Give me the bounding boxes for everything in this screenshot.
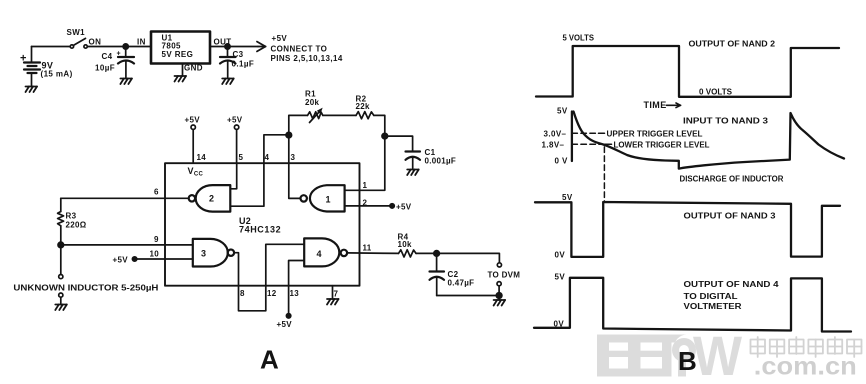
svg-text:0.001µF: 0.001µF — [425, 157, 457, 166]
svg-text:0.1µF: 0.1µF — [232, 60, 255, 69]
svg-text:+5V: +5V — [113, 256, 129, 265]
NAND gate U2-1 — [301, 185, 345, 211]
wire R2 to node B and down to pin1 — [345, 115, 385, 190]
+5V terminal pin13 — [286, 314, 290, 318]
svg-text:+5V: +5V — [277, 320, 293, 329]
wire 9 to gate3 — [61, 244, 193, 246]
dashed lower trigger level — [572, 143, 606, 145]
svg-text:VOLTMETER: VOLTMETER — [684, 302, 742, 311]
svg-text:C4: C4 — [102, 52, 113, 61]
svg-text:1: 1 — [326, 195, 331, 205]
wire pin4 to node A — [264, 135, 289, 163]
DVM terminals — [497, 263, 502, 296]
svg-text:0V: 0V — [555, 251, 566, 260]
NAND gate U2-4 — [304, 238, 347, 266]
node C3 junction — [225, 44, 230, 49]
battery B1 9V — [24, 47, 40, 87]
oscillator labels — [13, 90, 520, 375]
svg-text:(15 mA): (15 mA) — [41, 70, 73, 79]
svg-text:+5V: +5V — [185, 116, 201, 125]
ground inductor — [55, 305, 67, 311]
node B junction — [382, 133, 388, 139]
svg-text:9: 9 — [154, 235, 159, 244]
svg-text:2: 2 — [363, 199, 368, 208]
switch SW1 — [70, 38, 87, 48]
svg-text:10k: 10k — [398, 240, 412, 249]
ground DVM — [494, 296, 506, 306]
svg-text:0.47µF: 0.47µF — [448, 279, 475, 288]
+5V terminal pin10 — [132, 257, 136, 261]
EEPW logo badge — [597, 324, 742, 384]
svg-text:OUTPUT OF NAND 3: OUTPUT OF NAND 3 — [684, 212, 777, 221]
node A junction — [286, 132, 292, 138]
svg-text:4: 4 — [317, 249, 322, 259]
wire 6 gate2 output to R3 — [61, 197, 189, 199]
IC U2 74HC132 box — [165, 163, 360, 286]
svg-text:220Ω: 220Ω — [66, 221, 87, 230]
wire gate3 output to pin8 pin12 U-link — [234, 244, 304, 310]
svg-text:10µF: 10µF — [95, 64, 115, 73]
resistor R2 22k — [356, 112, 374, 119]
svg-text:C3: C3 — [233, 50, 244, 59]
wire node B to C1 — [385, 136, 413, 151]
svg-text:1.8V–: 1.8V– — [542, 141, 565, 150]
svg-text:0 VOLTS: 0 VOLTS — [699, 88, 733, 97]
svg-text:13: 13 — [290, 289, 300, 298]
svg-text:2: 2 — [209, 194, 214, 204]
svg-text:UNKNOWN INDUCTOR 5-250µH: UNKNOWN INDUCTOR 5-250µH — [13, 284, 158, 293]
EEPW chinese watermark — [751, 337, 862, 357]
svg-text:LOWER TRIGGER LEVEL: LOWER TRIGGER LEVEL — [614, 141, 710, 150]
svg-text:GND: GND — [184, 64, 203, 73]
svg-text:74HC132: 74HC132 — [239, 225, 281, 235]
wire gate1 pin2 to +5V — [345, 205, 391, 207]
svg-text:7: 7 — [334, 290, 339, 299]
wire pin13 gate4 input to +5V — [289, 261, 305, 314]
svg-text:TO DIGITAL: TO DIGITAL — [684, 292, 738, 301]
svg-text:R3: R3 — [66, 212, 77, 221]
svg-text:OUT: OUT — [214, 38, 232, 47]
wire 11 gate4 output to R4 — [347, 252, 398, 255]
arrow to +5V pins — [257, 42, 266, 52]
waveform labels — [542, 34, 784, 377]
resistor R1 20k variable — [308, 108, 323, 123]
power supply labels — [20, 28, 343, 79]
wire battery to switch — [32, 46, 71, 48]
svg-text:INPUT TO NAND 3: INPUT TO NAND 3 — [683, 117, 769, 126]
capacitor C3 — [220, 47, 236, 79]
svg-text:4: 4 — [265, 153, 270, 162]
svg-text:+5V: +5V — [227, 116, 243, 125]
svg-text:5V: 5V — [557, 107, 568, 116]
capacitor C2 — [430, 253, 445, 295]
wire pin5 to gate2 input — [230, 163, 236, 189]
ground pin7 — [327, 299, 339, 305]
NAND gate U2-3 — [193, 239, 234, 267]
ground battery — [26, 87, 38, 93]
svg-text:+5V: +5V — [396, 203, 412, 212]
svg-text:0V: 0V — [554, 320, 565, 329]
svg-text:8: 8 — [240, 289, 245, 298]
svg-text:PINS 2,5,10,13,14: PINS 2,5,10,13,14 — [271, 54, 343, 63]
waveform input to NAND 3 curve — [574, 112, 845, 169]
unknown inductor terminals — [59, 245, 63, 305]
svg-text:SW1: SW1 — [67, 28, 86, 37]
NAND gate U2-2 — [189, 185, 231, 212]
svg-text:+5V: +5V — [272, 34, 288, 43]
svg-text:+: + — [117, 51, 122, 58]
dashed upper trigger level — [572, 132, 600, 134]
svg-text:10: 10 — [150, 250, 160, 259]
+5V terminal pin14 — [191, 125, 195, 163]
svg-text:11: 11 — [363, 244, 372, 253]
svg-text:3: 3 — [201, 249, 206, 259]
svg-text:5 VOLTS: 5 VOLTS — [563, 34, 595, 43]
svg-text:DISCHARGE OF INDUCTOR: DISCHARGE OF INDUCTOR — [680, 175, 784, 184]
svg-text:14: 14 — [197, 153, 207, 162]
svg-text:3.0V–: 3.0V– — [544, 130, 567, 139]
svg-text:5V REG: 5V REG — [162, 50, 194, 59]
svg-text:W: W — [693, 324, 742, 384]
wire 10 to gate3 — [137, 258, 193, 260]
svg-text:3: 3 — [291, 153, 296, 162]
ground C1 — [407, 170, 419, 176]
svg-text:UPPER TRIGGER LEVEL: UPPER TRIGGER LEVEL — [607, 130, 703, 139]
svg-text:5V: 5V — [555, 273, 566, 282]
wire pin7 to ground — [332, 286, 334, 299]
svg-text:0 V: 0 V — [555, 157, 568, 166]
wire node A to R1 — [289, 115, 308, 135]
+5V terminal pin5 — [234, 125, 238, 163]
node R3 junction — [58, 242, 64, 248]
waveform output of NAND 4 — [534, 278, 851, 332]
svg-text:22k: 22k — [356, 102, 370, 111]
capacitor C4 — [118, 47, 134, 79]
svg-text:.com.cn: .com.cn — [754, 353, 857, 381]
node C4 junction — [123, 44, 128, 49]
dash before upper text — [599, 132, 605, 134]
wire pin3 to gate1 output bubble — [289, 163, 301, 198]
svg-text:ON: ON — [89, 38, 102, 47]
dash before lower text — [605, 143, 612, 145]
wire U1 OUT to arrow — [210, 46, 258, 48]
svg-text:5V: 5V — [562, 193, 573, 202]
waveform output of NAND 3 — [535, 202, 840, 257]
resistor R4 10k — [399, 250, 417, 257]
svg-text:20k: 20k — [305, 98, 319, 107]
ground C4 — [120, 79, 131, 85]
wire C2 bottom to DVM ground — [437, 295, 499, 297]
waveform input to NAND 3 axis — [571, 112, 573, 162]
wire pin4 to gate2 input — [230, 163, 264, 206]
node DVM ground junction — [496, 293, 502, 299]
U1 GND pin wire — [182, 64, 184, 77]
TIME arrow — [667, 103, 681, 108]
svg-text:IN: IN — [137, 38, 146, 47]
svg-text:TIME: TIME — [644, 100, 667, 110]
svg-text:VCC: VCC — [188, 166, 204, 178]
ground U1 — [175, 76, 187, 82]
svg-text:12: 12 — [267, 289, 277, 298]
svg-text:B: B — [678, 346, 697, 376]
svg-text:5: 5 — [239, 153, 244, 162]
wire switch to U1 IN — [87, 46, 151, 48]
ground C3 — [222, 79, 234, 85]
svg-text:TO DVM: TO DVM — [488, 271, 521, 280]
svg-text:CONNECT TO: CONNECT TO — [271, 45, 328, 54]
wire pin3 riser — [288, 135, 290, 163]
wire R4 to DVM — [416, 253, 499, 262]
svg-text:6: 6 — [154, 188, 159, 197]
wire R1 to R2 — [323, 114, 356, 116]
+5V terminal pin2 — [390, 204, 394, 208]
regulator U1 7805 box — [151, 32, 210, 64]
resistor R3 220 — [58, 198, 64, 245]
node C2 junction — [434, 251, 440, 257]
svg-text:OUTPUT OF NAND 2: OUTPUT OF NAND 2 — [689, 40, 776, 49]
waveform output of NAND 2 — [536, 46, 839, 97]
svg-text:A: A — [260, 345, 279, 375]
svg-text:1: 1 — [363, 181, 368, 190]
capacitor C1 — [406, 152, 421, 170]
dashed vertical trigger line — [603, 147, 605, 201]
svg-text:OUTPUT OF NAND 4: OUTPUT OF NAND 4 — [684, 280, 780, 289]
svg-text:+: + — [20, 53, 27, 65]
